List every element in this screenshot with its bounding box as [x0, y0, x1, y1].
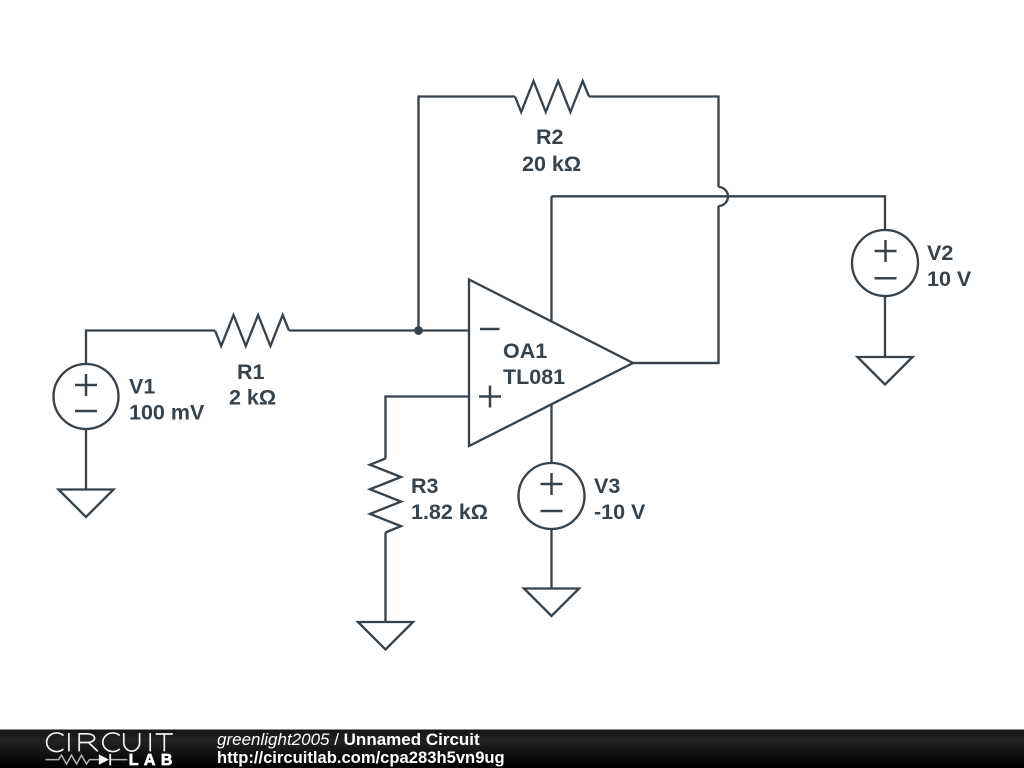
ground (V1) — [59, 490, 114, 518]
voltage source V3 — [519, 463, 585, 529]
svg-text:OA1: OA1 — [503, 339, 547, 363]
resistor R1 — [215, 315, 289, 346]
wire R3 to ground — [384, 533, 386, 623]
svg-text:20 kΩ: 20 kΩ — [522, 152, 581, 176]
svg-text:R1: R1 — [237, 360, 265, 384]
svg-text:greenlight2005 / Unnamed Circu: greenlight2005 / Unnamed Circuit — [217, 730, 480, 749]
svg-text:LAB: LAB — [129, 752, 178, 768]
svg-text:http://circuitlab.com/cpa283h5: http://circuitlab.com/cpa283h5vn9ug — [217, 748, 505, 767]
resistor R2 — [515, 81, 589, 112]
svg-text:-10 V: -10 V — [594, 500, 646, 524]
wire V2 to ground — [884, 296, 886, 357]
ground (R3) — [358, 622, 413, 650]
wire op-amp plus input — [386, 397, 470, 459]
svg-text:R3: R3 — [411, 474, 439, 498]
svg-text:V3: V3 — [594, 474, 620, 498]
svg-text:10 V: 10 V — [927, 267, 972, 291]
op-amp OA1 triangle — [469, 280, 633, 447]
logo resistor-diode glyph — [46, 755, 128, 764]
op-amp minus symbol — [480, 328, 500, 331]
wire R1 to op-amp minus input — [289, 329, 469, 331]
svg-text:V2: V2 — [927, 241, 953, 265]
wire right vertical to output — [633, 206, 719, 363]
op-amp plus symbol — [479, 386, 501, 408]
ground (V2) — [858, 357, 913, 385]
wire op-amp V- pin down — [550, 404, 552, 463]
wire V3 to ground — [550, 529, 552, 589]
wire supply to V2 — [552, 196, 886, 230]
wire op-amp output — [633, 362, 719, 364]
wire V1 to R1 — [86, 331, 215, 365]
wire V1 to ground — [85, 429, 87, 490]
logo CIRCUIT (drawn letters) — [47, 733, 173, 752]
wire R2 to right corner — [589, 97, 719, 188]
voltage source V1 — [54, 364, 119, 429]
svg-text:V1: V1 — [129, 375, 155, 399]
svg-text:R2: R2 — [536, 125, 564, 149]
resistor R3 — [370, 459, 401, 533]
svg-text:1.82 kΩ: 1.82 kΩ — [411, 500, 488, 524]
svg-text:TL081: TL081 — [503, 365, 565, 389]
svg-text:100 mV: 100 mV — [129, 401, 205, 425]
ground (V3) — [524, 589, 579, 617]
wire op-amp V+ pin up — [550, 196, 552, 321]
wire hop over supply wire — [719, 187, 729, 206]
wire top feedback left vertical — [419, 97, 516, 331]
node junction dot — [414, 326, 423, 335]
voltage source V2 — [852, 230, 918, 296]
svg-text:2 kΩ: 2 kΩ — [229, 386, 276, 410]
